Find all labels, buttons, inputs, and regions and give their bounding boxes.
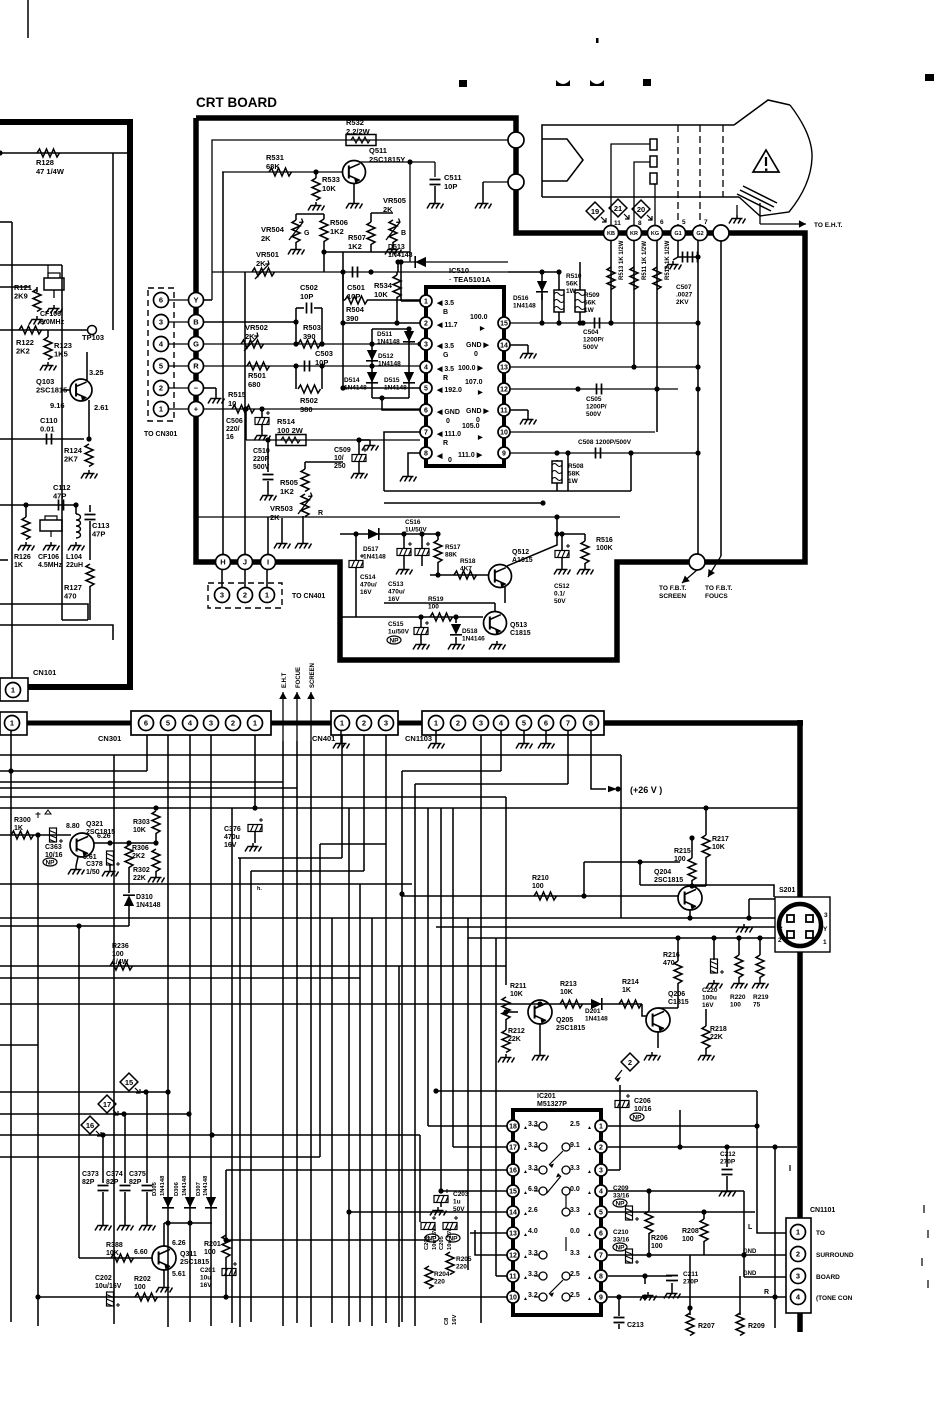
- resistor R302: [152, 849, 160, 872]
- svg-text:S201: S201: [779, 887, 795, 894]
- connector CN1103: [422, 711, 604, 735]
- wire 603 rail: [384, 602, 495, 604]
- svg-text:2K9: 2K9: [14, 292, 28, 301]
- wire pin8: [408, 453, 420, 473]
- svg-text:6: 6: [424, 408, 428, 415]
- svg-text:▲: ▲: [587, 1275, 592, 1281]
- svg-text:R534: R534: [374, 281, 393, 290]
- resistor R511: [630, 267, 638, 290]
- wire: [757, 1091, 790, 1233]
- svg-text:100: 100: [651, 1243, 663, 1250]
- vertical wires right: [610, 240, 612, 323]
- svg-text:R306: R306: [132, 845, 149, 852]
- svg-text:2.6: 2.6: [528, 1207, 538, 1214]
- svg-text:◀: ◀: [436, 453, 443, 460]
- resistor R508 1W: [552, 461, 562, 483]
- connector CN101: [0, 678, 28, 701]
- wire: [341, 735, 343, 858]
- svg-text:R514: R514: [277, 417, 296, 426]
- ground: [430, 1207, 447, 1216]
- svg-text:C506: C506: [226, 418, 243, 425]
- wire: [119, 1113, 124, 1115]
- svg-text:6: 6: [660, 219, 664, 226]
- CN1103 pin 4: [494, 716, 509, 731]
- svg-text:C516: C516: [405, 519, 421, 526]
- ground: [46, 305, 63, 314]
- svg-text:1N4148: 1N4148: [384, 385, 407, 392]
- svg-text:VR501: VR501: [256, 250, 279, 259]
- capacitor C203: [434, 1189, 449, 1203]
- dashed grid lines G1 G2: [678, 125, 723, 226]
- IC201 pin 6: [595, 1227, 607, 1239]
- svg-text:C363: C363: [45, 844, 62, 851]
- connector G: [189, 337, 204, 352]
- svg-text:470: 470: [64, 592, 77, 601]
- svg-text:▲: ▲: [587, 1169, 592, 1175]
- ground: [208, 395, 225, 404]
- bottom board border: [604, 720, 803, 726]
- wire: [268, 518, 282, 521]
- resistor R207: [686, 1313, 694, 1336]
- svg-text:R513 1K 1/2W: R513 1K 1/2W: [619, 240, 625, 280]
- svg-text:CF106: CF106: [38, 554, 59, 561]
- connector pin 2: [238, 588, 253, 603]
- wire: [349, 1211, 507, 1213]
- svg-text:D513: D513: [388, 244, 405, 251]
- svg-text:NP: NP: [632, 1115, 642, 1122]
- svg-text:D307: D307: [196, 1182, 202, 1196]
- svg-text:R213: R213: [560, 981, 577, 988]
- ground: [435, 731, 437, 740]
- capacitor C513 electrolytic: [415, 542, 430, 556]
- svg-text:▲: ▲: [587, 1211, 592, 1217]
- EHT FOCUS SCREEN arrows: [282, 692, 284, 741]
- svg-text:4: 4: [424, 365, 428, 372]
- wire r507 rail: [324, 251, 410, 253]
- svg-text:G2: G2: [696, 231, 703, 237]
- svg-text:5.61: 5.61: [83, 854, 97, 861]
- svg-text:1: 1: [796, 1228, 800, 1237]
- connector pin 2: [154, 381, 169, 396]
- svg-text:1W: 1W: [584, 307, 595, 314]
- wire: [0, 504, 76, 506]
- svg-text:1u/50V: 1u/50V: [388, 629, 410, 636]
- node: [319, 341, 324, 346]
- svg-text:C213: C213: [627, 1322, 644, 1329]
- tube pin 3: [650, 173, 657, 184]
- node: [265, 437, 270, 442]
- wire: [371, 918, 373, 1326]
- svg-text:3.3: 3.3: [570, 1165, 580, 1172]
- node: [689, 835, 694, 840]
- svg-text:C206: C206: [634, 1098, 651, 1105]
- CN1103 pin 7: [561, 716, 576, 731]
- resistor R517: [434, 540, 442, 563]
- svg-text:10/16: 10/16: [634, 1106, 652, 1113]
- capacitor C506 electrolytic: [255, 411, 270, 425]
- svg-text:Q511: Q511: [369, 146, 387, 155]
- CN1101 pin 2: [791, 1247, 806, 1262]
- capacitor C112: [59, 500, 64, 511]
- svg-text:C374: C374: [106, 1171, 123, 1178]
- wire: [78, 926, 80, 1258]
- wire: [10, 731, 12, 1322]
- wire: [0, 264, 62, 266]
- wire: [210, 735, 212, 1326]
- wire pin4: [343, 366, 420, 368]
- wire: [414, 784, 416, 1326]
- svg-text:D310: D310: [136, 894, 153, 901]
- ground: [577, 566, 594, 575]
- connector pin 6: [154, 293, 169, 308]
- svg-text:1200P/: 1200P/: [583, 337, 604, 344]
- capacitor C512 electrolytic: [555, 544, 570, 558]
- capacitor C510: [267, 440, 269, 472]
- connector KG: [648, 226, 663, 241]
- wire: [452, 808, 454, 1147]
- connector J: [238, 555, 253, 570]
- svg-text:D305: D305: [152, 1181, 158, 1196]
- svg-text:▲: ▲: [587, 1254, 592, 1260]
- wire G rail: [203, 343, 420, 345]
- wire: [331, 918, 333, 1323]
- CN301 pin 6: [139, 716, 154, 731]
- svg-text:10P: 10P: [444, 182, 457, 191]
- svg-text:R212: R212: [508, 1028, 525, 1035]
- bus wire: [27, 721, 131, 726]
- svg-text:(TONE CON: (TONE CON: [816, 1295, 853, 1302]
- svg-text:17: 17: [103, 1100, 111, 1109]
- svg-text:E.H.T: E.H.T: [282, 672, 288, 688]
- capacitor C516 electrolytic: [397, 542, 412, 556]
- CN1101 pin 3: [791, 1269, 806, 1284]
- svg-text:R236: R236: [112, 943, 129, 950]
- svg-text:▲: ▲: [587, 1125, 592, 1131]
- svg-text:NP: NP: [45, 860, 55, 867]
- wire inner frame: [0, 604, 88, 620]
- connector pin 1: [260, 588, 275, 603]
- svg-text:18: 18: [509, 1124, 517, 1131]
- wire: [475, 1230, 507, 1255]
- wire: [128, 906, 130, 926]
- transistor Q321: [70, 833, 94, 857]
- IC201 pin 5: [595, 1206, 607, 1218]
- svg-text:16: 16: [509, 1168, 517, 1175]
- svg-text:R302: R302: [133, 867, 150, 874]
- node: [293, 363, 298, 368]
- wire: [557, 533, 585, 535]
- node: [539, 320, 544, 325]
- wire: [540, 1008, 706, 1010]
- transistor Q511: [343, 161, 366, 184]
- wire: [402, 770, 501, 772]
- CN1103 pin 3: [474, 716, 489, 731]
- svg-text:82P: 82P: [82, 1179, 95, 1186]
- wire: [410, 161, 435, 163]
- svg-text:KB: KB: [607, 231, 615, 237]
- svg-text:GND: GND: [743, 1271, 757, 1277]
- IC201 pin 8: [595, 1270, 607, 1282]
- svg-text:5.61: 5.61: [172, 1271, 186, 1278]
- svg-text:R219: R219: [753, 994, 769, 1001]
- wire: [677, 388, 679, 390]
- svg-text:3.3: 3.3: [528, 1271, 538, 1278]
- ground: [520, 350, 537, 359]
- wire: [440, 808, 442, 1191]
- connector I: [261, 555, 276, 570]
- svg-text:Q512: Q512: [512, 549, 529, 556]
- node: [321, 249, 326, 254]
- svg-text:390: 390: [303, 332, 316, 341]
- svg-text:R209: R209: [748, 1323, 765, 1330]
- svg-text:3.3: 3.3: [528, 1121, 538, 1128]
- resistor R531: [269, 168, 292, 176]
- diamond tag 20: [632, 200, 650, 218]
- svg-text:R202: R202: [134, 1276, 151, 1283]
- connector CN301: [131, 711, 271, 735]
- CN401 pin 2: [357, 716, 372, 731]
- ground: [288, 246, 305, 255]
- wire: [620, 755, 622, 918]
- svg-text:2K2: 2K2: [16, 347, 30, 356]
- node: [356, 437, 361, 442]
- svg-text:2SC1815: 2SC1815: [556, 1025, 585, 1032]
- svg-text:220: 220: [434, 1279, 445, 1286]
- svg-text:3.3: 3.3: [528, 1142, 538, 1149]
- IC201 pin 16: [507, 1164, 519, 1176]
- svg-text:L104: L104: [66, 554, 82, 561]
- svg-text:Q205: Q205: [556, 1017, 573, 1024]
- wire: [480, 735, 482, 1323]
- wire: [87, 330, 92, 380]
- node: [631, 364, 636, 369]
- svg-text:B: B: [401, 230, 406, 237]
- svg-text:100.0 ▶: 100.0 ▶: [458, 365, 483, 372]
- resistor R506: [320, 219, 328, 242]
- svg-text:0: 0: [446, 418, 450, 425]
- wire collector: [360, 162, 410, 163]
- capacitor C213: [618, 1297, 620, 1316]
- svg-text:1: 1: [424, 299, 428, 306]
- capacitor C509 electrolytic: [352, 448, 367, 462]
- svg-text:R512 1K 1/2W: R512 1K 1/2W: [665, 240, 671, 280]
- wire: [679, 1110, 681, 1147]
- wire: [494, 603, 496, 611]
- svg-text:10K: 10K: [374, 290, 388, 299]
- svg-text:C1815: C1815: [668, 999, 689, 1006]
- wire: [245, 409, 247, 440]
- ground: [156, 1284, 173, 1293]
- IC510 pin 14: [498, 339, 510, 351]
- wire 534 rail: [340, 533, 425, 535]
- dashed box TO CN401: [208, 583, 282, 608]
- svg-text:C509: C509: [334, 447, 351, 454]
- svg-text:D516: D516: [513, 295, 529, 302]
- svg-text:R218: R218: [710, 1026, 727, 1033]
- svg-text:R519: R519: [428, 596, 444, 603]
- svg-text:R303: R303: [133, 819, 150, 826]
- svg-text:I: I: [267, 558, 269, 567]
- svg-text:5: 5: [682, 219, 686, 226]
- svg-text:5: 5: [424, 386, 428, 393]
- wire: [689, 910, 691, 918]
- svg-text:50V: 50V: [554, 598, 566, 605]
- svg-text:C504: C504: [583, 329, 599, 336]
- wire KR to pin: [634, 162, 650, 233]
- svg-text:C501: C501: [347, 283, 365, 292]
- svg-text:22uH: 22uH: [66, 562, 83, 569]
- ground: [665, 261, 682, 270]
- capacitor C374: [124, 1114, 126, 1183]
- connector pin 5: [154, 359, 169, 374]
- svg-text:100: 100: [134, 1284, 146, 1291]
- test point TP103: [88, 326, 97, 335]
- wire: [619, 517, 621, 562]
- wire pin1: [608, 1125, 757, 1127]
- CN301 pin 2: [226, 716, 241, 731]
- wire: [372, 397, 409, 399]
- svg-text:9.1: 9.1: [570, 1142, 580, 1149]
- node: [86, 436, 91, 441]
- svg-text:8: 8: [424, 451, 428, 458]
- capacitor C208 electrolytic: [615, 1094, 630, 1108]
- node: [435, 572, 440, 577]
- svg-text:1N4148: 1N4148: [363, 554, 386, 561]
- svg-text:C212: C212: [720, 1151, 736, 1158]
- wire pin10 rail: [510, 431, 655, 433]
- wire pin9: [608, 1296, 790, 1298]
- svg-text:C376: C376: [224, 826, 241, 833]
- svg-text:107.0: 107.0: [465, 379, 483, 386]
- wire: [453, 1146, 507, 1148]
- svg-text:10K: 10K: [560, 989, 573, 996]
- CN1103 pin 8: [584, 716, 599, 731]
- wire: [0, 1003, 642, 1005]
- wire base rail: [222, 171, 343, 173]
- svg-text:6: 6: [144, 719, 148, 728]
- svg-text:CN401: CN401: [312, 734, 335, 743]
- wire: [0, 977, 360, 979]
- svg-text:82P: 82P: [106, 1179, 119, 1186]
- wire: [281, 518, 283, 540]
- svg-text:◀ GND: ◀ GND: [436, 409, 460, 416]
- resistor R534: [393, 275, 401, 298]
- svg-text:R511 1K 1/2W: R511 1K 1/2W: [642, 241, 648, 280]
- svg-text:2.5: 2.5: [570, 1121, 580, 1128]
- wire: [128, 867, 130, 893]
- CN301 pin 4: [183, 716, 198, 731]
- svg-text:2: 2: [243, 591, 247, 600]
- svg-text:R217: R217: [712, 836, 729, 843]
- svg-text:R508: R508: [568, 463, 584, 470]
- svg-text:CN1103: CN1103: [405, 734, 432, 743]
- svg-text:12: 12: [500, 387, 508, 394]
- svg-text:9: 9: [599, 1295, 603, 1302]
- svg-text:2: 2: [362, 719, 366, 728]
- connector H: [216, 555, 231, 570]
- svg-text:FOUCS: FOUCS: [705, 593, 728, 600]
- svg-text:◀ 111.0: ◀ 111.0: [436, 431, 461, 438]
- CN301 pin 1: [248, 716, 263, 731]
- svg-text:1: 1: [434, 719, 438, 728]
- svg-text:6: 6: [599, 1231, 603, 1238]
- wire: [88, 400, 90, 439]
- connector box left: [0, 712, 27, 735]
- wire pin7: [384, 432, 420, 491]
- svg-text:4K7: 4K7: [460, 566, 472, 573]
- svg-text:1N4148: 1N4148: [378, 361, 401, 368]
- svg-text:C513: C513: [388, 581, 404, 588]
- wire: [0, 221, 12, 223]
- resistor R204: [425, 1266, 433, 1289]
- IC201 pin 2: [595, 1141, 607, 1153]
- svg-text:250: 250: [334, 463, 346, 470]
- CN1103 pin 2: [451, 716, 466, 731]
- svg-text:BOARD: BOARD: [816, 1274, 840, 1281]
- svg-text:◀ 3.5: ◀ 3.5: [436, 300, 454, 307]
- svg-text:2.61: 2.61: [94, 403, 109, 412]
- wire: [0, 787, 297, 789]
- resistor R515: [232, 405, 255, 413]
- wire: [102, 1134, 103, 1136]
- capacitor C508: [510, 452, 700, 454]
- svg-text:220: 220: [456, 1264, 467, 1271]
- ground: [520, 416, 537, 425]
- wire: [250, 871, 252, 1322]
- wire: [398, 966, 400, 1327]
- svg-text:56K: 56K: [584, 300, 596, 307]
- wire: [384, 502, 543, 504]
- svg-text:13: 13: [509, 1231, 517, 1238]
- IC510 pin 1: [420, 295, 432, 307]
- capacitor C220 electrolytic: [711, 959, 725, 974]
- svg-text:R532: R532: [346, 118, 364, 127]
- svg-text:1K5: 1K5: [54, 350, 68, 359]
- svg-text:6.26: 6.26: [172, 1240, 186, 1247]
- wire: [0, 559, 8, 561]
- svg-text:VR504: VR504: [261, 225, 285, 234]
- svg-text:56K: 56K: [566, 281, 578, 288]
- svg-text:100 2W: 100 2W: [277, 426, 304, 435]
- svg-text:C203: C203: [453, 1191, 469, 1198]
- svg-text:D514: D514: [344, 377, 360, 384]
- ground: [81, 470, 98, 479]
- wire: [0, 1113, 189, 1115]
- svg-text:B: B: [443, 309, 448, 316]
- wire: [467, 918, 469, 1270]
- capacitor C504: [595, 318, 600, 329]
- svg-text:100.0: 100.0: [470, 314, 488, 321]
- svg-text:D517: D517: [363, 546, 379, 553]
- CN1103 pin 5: [517, 716, 532, 731]
- diode D513: [398, 261, 508, 263]
- svg-text:R531: R531: [266, 153, 284, 162]
- wire: [689, 1255, 691, 1315]
- ground: [640, 1292, 657, 1301]
- IC510 pin 3: [420, 338, 432, 350]
- svg-text:3: 3: [220, 591, 224, 600]
- capacitor C211: [666, 1276, 678, 1281]
- wire: [0, 965, 506, 967]
- svg-text:2: 2: [599, 1145, 603, 1152]
- connector +: [189, 402, 204, 417]
- ground: [736, 924, 753, 933]
- wire: [296, 741, 298, 1323]
- resistor R510 1W: [554, 290, 564, 312]
- svg-text:C375: C375: [129, 1171, 146, 1178]
- svg-text:2: 2: [778, 937, 782, 944]
- wire J up: [244, 272, 246, 554]
